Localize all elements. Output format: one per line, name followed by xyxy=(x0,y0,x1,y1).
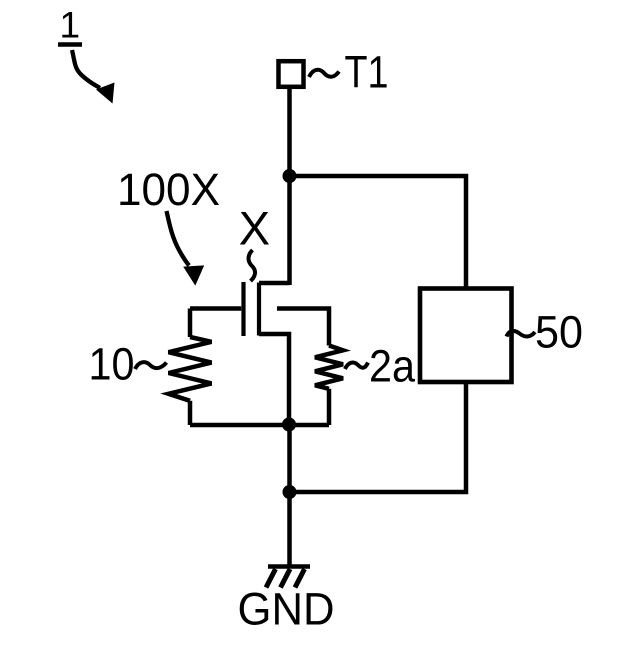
resistor 10 xyxy=(169,309,212,426)
node junction top xyxy=(283,169,297,183)
ground xyxy=(266,567,310,588)
wire top branch to block 50 xyxy=(290,176,467,290)
svg-text:100X: 100X xyxy=(117,164,220,215)
wire bottom rail xyxy=(190,423,329,428)
svg-text:10: 10 xyxy=(89,339,135,390)
tilde 2a xyxy=(345,363,368,370)
transistor X drain lead xyxy=(259,281,290,286)
squiggle X to gate xyxy=(249,250,256,281)
transistor X gate bar xyxy=(241,282,245,336)
svg-text:1: 1 xyxy=(60,5,81,46)
wire block 50 bottom xyxy=(290,382,467,492)
svg-text:2a: 2a xyxy=(369,341,416,392)
svg-text:T1: T1 xyxy=(345,47,389,98)
label 1 underline xyxy=(58,42,82,47)
svg-text:50: 50 xyxy=(535,307,583,358)
tilde T1 xyxy=(309,70,339,77)
tilde 50 xyxy=(507,331,536,337)
transistor X gate lead xyxy=(190,306,241,311)
transistor X source lead xyxy=(259,334,289,425)
block 50 xyxy=(420,289,512,383)
arrow from label 100X xyxy=(167,211,205,286)
node parallel bottom xyxy=(282,418,296,432)
terminal T1 xyxy=(279,61,304,87)
wire main down to ground xyxy=(287,425,292,567)
resistor 2a xyxy=(315,346,343,426)
wire T1 to drain xyxy=(287,89,292,286)
node junction bottom xyxy=(283,485,297,499)
svg-text:GND: GND xyxy=(238,584,335,635)
tilde 10 xyxy=(135,362,167,369)
transistor X body stub xyxy=(277,309,329,346)
arrow from label 1 xyxy=(72,50,115,104)
svg-text:X: X xyxy=(239,202,270,255)
transistor X channel bar xyxy=(257,283,261,336)
